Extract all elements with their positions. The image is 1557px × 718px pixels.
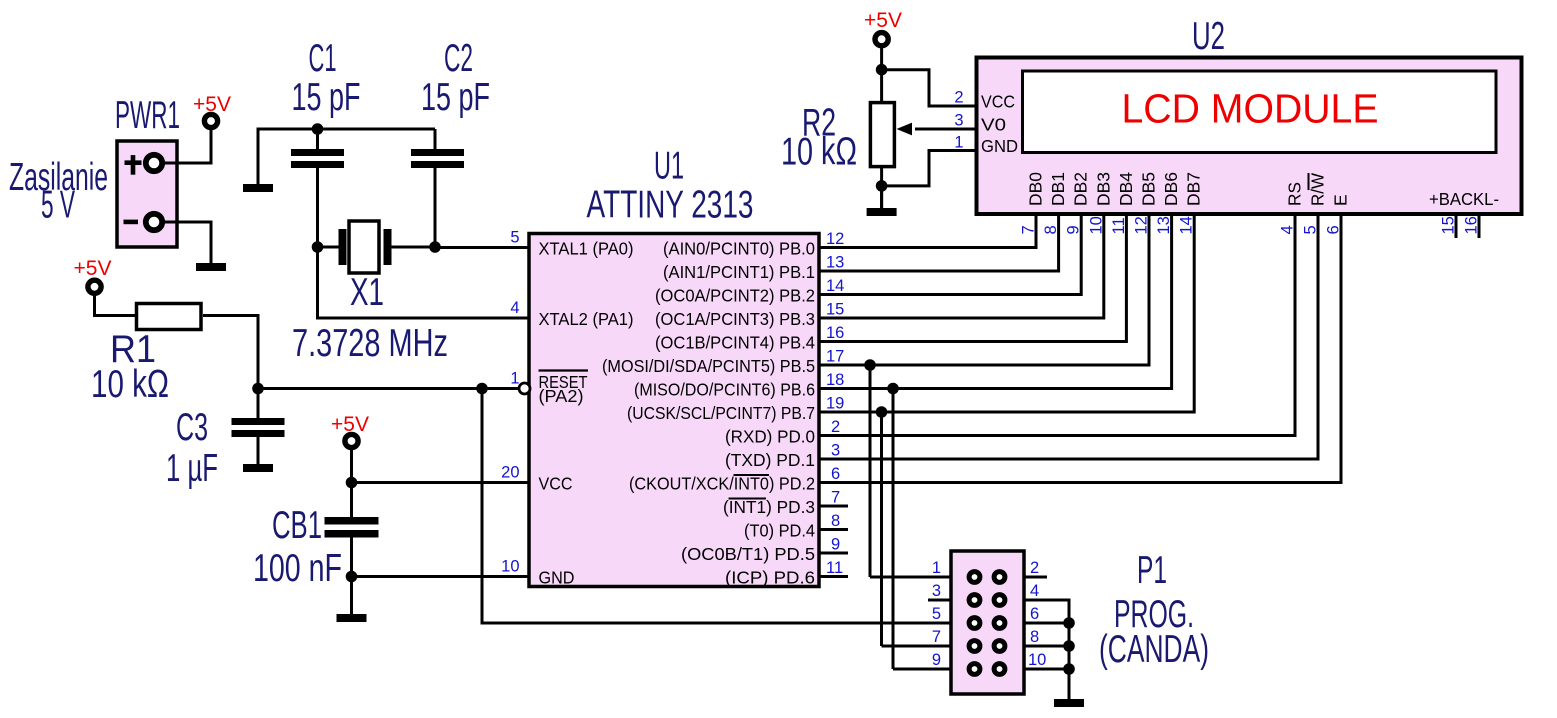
junction VCC node (346, 477, 358, 489)
wire P1 pin 8 (1024, 645, 1069, 648)
svg-text:4: 4 (1279, 225, 1297, 234)
svg-text:U2: U2 (1192, 15, 1225, 58)
svg-text:5: 5 (932, 605, 941, 623)
wire PB.5 to P1 pin 1 (869, 365, 872, 577)
svg-text:3: 3 (831, 442, 840, 460)
svg-text:7: 7 (1020, 225, 1038, 234)
svg-text:1: 1 (510, 370, 519, 388)
svg-text:6: 6 (1325, 225, 1343, 234)
capacitor CB1 (325, 517, 379, 614)
wire P1 pin 9 (893, 668, 951, 671)
junction reset node left (252, 383, 264, 395)
svg-text:3: 3 (932, 582, 941, 600)
wire P1 pin 1 (870, 576, 951, 579)
svg-text:GND: GND (981, 136, 1018, 156)
wire R1 to C3 (203, 316, 258, 419)
op-amp U1 body (IC ATTINY 2313) (529, 234, 819, 587)
svg-text:(PA2): (PA2) (539, 386, 584, 406)
svg-text:RS: RS (1285, 182, 1305, 206)
svg-text:XTAL1 (PA0): XTAL1 (PA0) (539, 239, 634, 259)
wire PB.6 to LCD DB6 (819, 214, 1172, 389)
junction PB.7 node (876, 406, 888, 418)
svg-text:10: 10 (501, 558, 519, 576)
wire stub backlight 15 (1455, 214, 1458, 238)
svg-text:2: 2 (1030, 559, 1039, 577)
wire P1 pin 4 to ground (1024, 600, 1069, 699)
svg-text:1: 1 (932, 559, 941, 577)
junction reset node right (476, 383, 488, 395)
wire XTAL2 pin 4 (318, 247, 530, 318)
svg-text:C2: C2 (444, 37, 473, 80)
svg-text:(T0) PD.4: (T0) PD.4 (744, 521, 815, 541)
wire +5V to R1 (95, 293, 137, 316)
pin label R/W with overline (1308, 173, 1328, 206)
svg-text:(RXD) PD.0: (RXD) PD.0 (725, 427, 815, 447)
power +5V at R1 (74, 257, 112, 293)
op-amp U2 body (LCD module) (977, 58, 1522, 215)
svg-text:+5V: +5V (193, 93, 231, 116)
wire PB.1 to LCD DB1 (819, 214, 1059, 271)
svg-text:100 nF: 100 nF (253, 547, 342, 590)
svg-text:10 kΩ: 10 kΩ (91, 363, 169, 406)
svg-text:(MOSI/DI/SDA/PCINT5) PB.5: (MOSI/DI/SDA/PCINT5) PB.5 (602, 356, 815, 376)
wire stub PD.5 (819, 552, 848, 555)
wire VCC pin 20 (352, 481, 530, 484)
svg-text:16: 16 (826, 324, 844, 342)
svg-text:10: 10 (1087, 216, 1105, 234)
svg-text:5: 5 (510, 229, 519, 247)
capacitor C3 (232, 418, 285, 464)
svg-text:VCC: VCC (981, 92, 1015, 112)
wire R2 bottom to LCD GND (882, 151, 976, 186)
wire XTAL1 pin 5 (435, 246, 529, 249)
svg-text:14: 14 (1178, 216, 1196, 234)
svg-text:7: 7 (831, 489, 840, 507)
svg-text:15: 15 (826, 301, 844, 319)
svg-text:11: 11 (1110, 217, 1128, 234)
overline INT1 on PD.3 label (729, 498, 767, 500)
wire +5V to R2 top (880, 46, 883, 103)
svg-text:8: 8 (1042, 225, 1060, 234)
svg-text:(INT1) PD.3: (INT1) PD.3 (723, 497, 815, 517)
svg-text:(OC0B/T1) PD.5: (OC0B/T1) PD.5 (681, 544, 815, 564)
wire P1 pin 10 (1024, 668, 1069, 671)
wire stub PD.3 (819, 505, 848, 508)
svg-text:(ICP) PD.6: (ICP) PD.6 (725, 568, 815, 588)
svg-text:7.3728 MHz: 7.3728 MHz (292, 322, 448, 365)
svg-text:19: 19 (826, 395, 844, 413)
wire PD.2 to LCD E (819, 214, 1341, 483)
svg-text:C1: C1 (309, 37, 337, 80)
wire P1 pin 7 (882, 645, 952, 648)
svg-text:(UCSK/SCL/PCINT7) PB.7: (UCSK/SCL/PCINT7) PB.7 (627, 403, 815, 423)
svg-text:(CKOUT/XCK/INT0) PD.2: (CKOUT/XCK/INT0) PD.2 (629, 474, 815, 494)
svg-text:DB7: DB7 (1184, 172, 1204, 206)
svg-text:XTAL2 (PA1): XTAL2 (PA1) (539, 309, 634, 329)
junction PB.5 node (864, 359, 876, 371)
svg-text:DB1: DB1 (1048, 172, 1068, 206)
wire R2 bottom (880, 167, 883, 208)
wire PWR1 minus to ground (164, 222, 211, 263)
crystal X1 (318, 221, 436, 273)
svg-text:LCD MODULE: LCD MODULE (1122, 86, 1379, 132)
svg-text:14: 14 (826, 277, 844, 295)
ground of C1/C2 (243, 129, 273, 192)
svg-text:(CANDA): (CANDA) (1099, 628, 1209, 671)
svg-text:11: 11 (826, 559, 843, 577)
potentiometer R2 (870, 103, 976, 167)
ground below P1 (1054, 669, 1084, 707)
svg-text:4: 4 (1030, 582, 1039, 600)
svg-text:DB4: DB4 (1116, 172, 1136, 206)
svg-text:PWR1: PWR1 (115, 94, 180, 137)
svg-text:10: 10 (1028, 651, 1046, 669)
wire PB.2 to LCD DB2 (819, 214, 1081, 295)
svg-text:C3: C3 (176, 406, 208, 449)
pin label RESET (PA2) with overline (539, 371, 589, 407)
connector P1 body (951, 551, 1024, 694)
wire reset to P1 pin 5 (482, 389, 951, 624)
capacitor C1 (291, 129, 344, 247)
svg-text:X1: X1 (350, 271, 384, 314)
wire reset net (258, 387, 520, 390)
svg-text:GND: GND (539, 568, 575, 588)
svg-text:ATTINY 2313: ATTINY 2313 (587, 184, 754, 227)
svg-text:DB3: DB3 (1093, 172, 1113, 206)
svg-text:16: 16 (1463, 216, 1481, 234)
junction P1 pin 6 (1063, 617, 1075, 629)
svg-text:E: E (1331, 194, 1351, 206)
connector PWR1 (117, 141, 177, 247)
svg-text:15 pF: 15 pF (421, 76, 490, 119)
svg-text:P1: P1 (1137, 549, 1167, 592)
wire PB.3 to LCD DB3 (819, 214, 1104, 318)
svg-text:4: 4 (510, 299, 519, 317)
svg-text:1 µF: 1 µF (166, 447, 218, 490)
svg-text:15 pF: 15 pF (292, 76, 361, 119)
svg-text:+5V: +5V (331, 413, 369, 436)
svg-text:+BACKL-: +BACKL- (1429, 189, 1499, 209)
svg-text:DB6: DB6 (1161, 172, 1181, 206)
wire stub backlight 16 (1478, 214, 1481, 238)
svg-text:(OC1A/PCINT3) PB.3: (OC1A/PCINT3) PB.3 (655, 309, 815, 329)
junction P1 pin 8 (1063, 640, 1075, 652)
power +5V at R2 (864, 9, 902, 46)
wire PB.0 to LCD DB0 (819, 214, 1036, 248)
junction PB.6 node (887, 383, 899, 395)
svg-text:CB1: CB1 (272, 504, 322, 547)
ground below R2 (867, 186, 897, 216)
svg-text:DB2: DB2 (1071, 172, 1091, 206)
svg-text:15: 15 (1440, 216, 1458, 234)
svg-text:20: 20 (501, 464, 519, 482)
wire PB.7 to LCD DB7 (819, 214, 1194, 412)
svg-text:5: 5 (1302, 225, 1320, 234)
wire +5V to VCC node (350, 448, 353, 517)
svg-text:DB5: DB5 (1139, 172, 1159, 206)
svg-text:3: 3 (954, 112, 963, 130)
svg-text:10 kΩ: 10 kΩ (781, 131, 857, 174)
wire GND pin 10 (352, 575, 530, 578)
svg-text:8: 8 (1030, 628, 1039, 646)
ground below C3 (243, 437, 273, 472)
svg-text:+5V: +5V (864, 9, 902, 32)
overline INT0 on PD.2 label (734, 474, 770, 476)
svg-text:U1: U1 (654, 145, 684, 188)
svg-text:12: 12 (1133, 216, 1151, 234)
wire PWR1 plus to +5V (164, 130, 211, 163)
svg-text:17: 17 (826, 348, 844, 366)
svg-text:(TXD) PD.1: (TXD) PD.1 (725, 450, 815, 470)
power +5V at PWR1 (193, 93, 231, 128)
svg-text:9: 9 (932, 651, 941, 669)
wire R2 top to LCD VCC (882, 70, 976, 106)
wire P1 pin 6 (1024, 622, 1069, 625)
svg-text:7: 7 (932, 628, 941, 646)
wire PB.5 to LCD DB5 (819, 214, 1149, 365)
ground below PWR1 (196, 222, 226, 271)
power +5V at CB1 (331, 413, 369, 448)
svg-text:R/W: R/W (1308, 173, 1328, 206)
svg-text:13: 13 (826, 254, 844, 272)
junction R2 bottom node (876, 180, 888, 192)
svg-text:2: 2 (831, 418, 840, 436)
wire PB.4 to LCD DB4 (819, 214, 1126, 342)
wire stub P1 pin 2 (1024, 576, 1047, 579)
svg-text:6: 6 (831, 465, 840, 483)
junction crystal right (429, 241, 441, 253)
svg-text:2: 2 (954, 89, 963, 107)
svg-text:(OC1B/PCINT4) PB.4: (OC1B/PCINT4) PB.4 (655, 333, 815, 353)
svg-text:8: 8 (831, 512, 840, 530)
junction crystal left (312, 241, 324, 253)
wire PD.0 to LCD RS (819, 214, 1295, 436)
wire stub PD.6 (819, 575, 848, 578)
svg-text:12: 12 (826, 230, 844, 248)
svg-text:(AIN0/PCINT0) PB.0: (AIN0/PCINT0) PB.0 (663, 239, 815, 259)
junction C1 top (312, 123, 324, 135)
svg-text:1: 1 (954, 134, 963, 152)
svg-text:6: 6 (1030, 605, 1039, 623)
junction GND node (346, 571, 358, 583)
wire stub PD.4 (819, 528, 848, 531)
junction P1 pin 10 (1063, 663, 1075, 675)
svg-text:V0: V0 (981, 115, 1006, 135)
svg-text:9: 9 (831, 536, 840, 554)
svg-text:(MISO/DO/PCINT6) PB.6: (MISO/DO/PCINT6) PB.6 (634, 380, 815, 400)
wire PB.7 to P1 pin 7 (880, 412, 883, 646)
svg-text:(AIN1/PCINT1) PB.1: (AIN1/PCINT1) PB.1 (663, 262, 815, 282)
wire ground rail to C1/C2 tops (258, 129, 435, 184)
svg-text:9: 9 (1065, 225, 1083, 234)
wire PD.1 to LCD R/W (819, 214, 1318, 459)
pin 1 inverted bubble (519, 383, 530, 394)
svg-text:(OC0A/PCINT2) PB.2: (OC0A/PCINT2) PB.2 (655, 286, 815, 306)
svg-text:+5V: +5V (74, 257, 112, 280)
junction R2 top node (876, 64, 888, 76)
svg-text:DB0: DB0 (1026, 172, 1046, 206)
ground below CB1 (337, 606, 367, 622)
wire PB.6 to P1 pin 9 (892, 389, 895, 670)
svg-text:VCC: VCC (539, 474, 573, 494)
svg-text:13: 13 (1155, 216, 1173, 234)
svg-text:18: 18 (826, 371, 844, 389)
capacitor C2 (411, 129, 464, 247)
resistor R1 (137, 304, 202, 330)
svg-text:5 V: 5 V (41, 184, 75, 227)
wire stub P1 pin 3 (928, 599, 951, 602)
